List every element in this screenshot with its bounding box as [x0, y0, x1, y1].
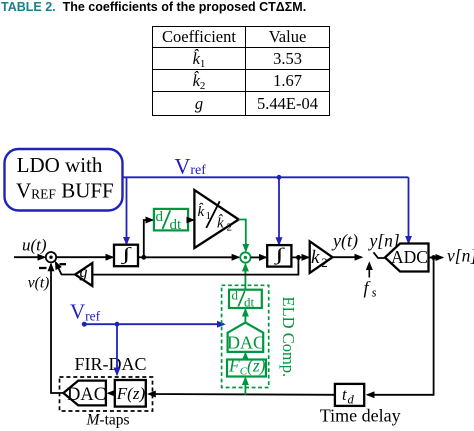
junction Vref bottom [115, 322, 120, 327]
F(z) block [115, 380, 146, 407]
summing node S2 (green) [240, 252, 250, 262]
svg-text:∫: ∫ [120, 245, 132, 265]
svg-text:y(t): y(t) [331, 231, 358, 252]
wire k2 to sampler [333, 256, 362, 258]
wire ADC output [429, 257, 443, 259]
svg-text:ELD Comp.: ELD Comp. [279, 297, 298, 378]
amplifier g [75, 263, 92, 286]
svg-text:2: 2 [321, 255, 328, 270]
integrator 2 [267, 245, 291, 267]
svg-text:d: d [348, 393, 355, 407]
wire Vref to ELD comp [84, 323, 224, 325]
svg-text:2: 2 [227, 222, 233, 234]
sampler switch [374, 252, 386, 258]
wire g feedback tap [92, 257, 298, 274]
wire k1/k2 to summing node S2 [239, 220, 246, 251]
wire Vref bus [123, 176, 409, 178]
fs arrow [368, 263, 370, 278]
svg-text:Vref: Vref [70, 300, 101, 324]
LDO with Vref buffer box [5, 149, 123, 211]
svg-text:k̂: k̂ [217, 215, 224, 232]
coefficients table [152, 26, 330, 116]
d/dt block (ELD) [229, 288, 262, 310]
integrator 1 [114, 245, 138, 267]
wire ELD DAC to d/dt [244, 310, 246, 323]
DAC block (FIR) [63, 381, 106, 406]
svg-text:FIR-DAC: FIR-DAC [75, 354, 147, 374]
wire Fc(z) to DAC [244, 353, 246, 359]
wire Vref to ADC [408, 177, 410, 243]
table caption [1, 0, 473, 14]
FIR-DAC dashed box [60, 377, 153, 411]
svg-text:ADC: ADC [391, 247, 428, 267]
wire g to S1 [56, 262, 75, 274]
wire feedback ADC to time delay [368, 258, 434, 395]
junction Vref bus [277, 175, 282, 180]
wire F(z) to DAC [108, 392, 115, 394]
svg-text:v(t): v(t) [28, 275, 50, 292]
svg-text:Time delay: Time delay [320, 405, 401, 425]
svg-text:DAC: DAC [227, 332, 265, 352]
wire u(t) input [14, 256, 45, 258]
svg-text:dt: dt [244, 295, 255, 310]
wire d/dt to k1/k2 [188, 219, 193, 221]
svg-text:d: d [156, 209, 164, 225]
svg-text:∫: ∫ [273, 245, 285, 265]
svg-text:v[n]: v[n] [447, 246, 474, 266]
svg-text:f: f [364, 278, 372, 298]
svg-text:k: k [311, 247, 320, 268]
junction integrator 1 output [141, 255, 146, 260]
wire feedback to Fc(z) [244, 378, 246, 395]
time delay block td [335, 384, 364, 407]
Vref bottom wire start dot [82, 322, 87, 327]
junction ADC output [431, 255, 436, 260]
wire DAC to S1 (v(t) feedback) [51, 264, 63, 393]
wire S2 to integrator 2 [251, 256, 266, 258]
junction integrator 2 output [296, 255, 301, 260]
svg-text:Vref: Vref [175, 154, 207, 179]
wire td to F(z) [149, 393, 335, 396]
svg-text:d: d [232, 288, 239, 303]
svg-text:M-taps: M-taps [86, 412, 130, 429]
minus sign (g feedback input) [60, 263, 67, 265]
svg-text:DAC: DAC [67, 385, 106, 405]
wire integrator 1 to S2 [138, 256, 239, 258]
DAC block (ELD) [227, 323, 265, 353]
amplifier k2 [310, 241, 333, 273]
svg-text:t: t [342, 385, 347, 404]
wire Vref to integrator 2 [278, 177, 280, 244]
Fc(z) block [227, 356, 266, 378]
wire Vref to integrator 1 [126, 177, 128, 244]
svg-text:LDO with: LDO with [17, 153, 103, 177]
minus sign (DAC feedback input) [39, 267, 47, 269]
svg-text:s: s [372, 286, 377, 300]
wire integrator 2 to k2 [291, 256, 308, 258]
svg-text:VREF BUFF: VREF BUFF [16, 179, 114, 203]
svg-text:k̂: k̂ [198, 203, 205, 220]
ELD Comp. dashed box [222, 285, 269, 387]
wire Vref to FIR-DAC [116, 324, 118, 374]
svg-text:dt: dt [170, 217, 183, 233]
amplifier k1/k2 [194, 190, 238, 248]
svg-text:FC(z): FC(z) [228, 356, 266, 378]
wire S1 to integrator 1 [56, 256, 112, 258]
wire ELD d/dt to S2 [244, 264, 246, 289]
ADC block [385, 244, 429, 272]
d/dt block (feedforward) [154, 209, 188, 233]
wire to feedforward d/dt [144, 220, 153, 257]
svg-text:u(t): u(t) [22, 236, 47, 255]
summing node S1 [46, 252, 56, 262]
svg-text:F(z): F(z) [116, 384, 146, 403]
svg-text:g: g [80, 264, 88, 281]
